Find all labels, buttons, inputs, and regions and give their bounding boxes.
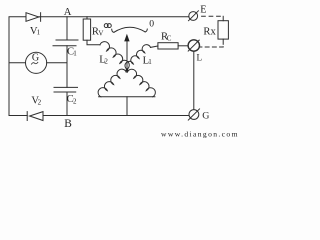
svg-text:L: L: [197, 53, 203, 63]
svg-text:G: G: [202, 111, 209, 122]
svg-text:C: C: [167, 35, 172, 43]
svg-text:2: 2: [38, 98, 42, 106]
svg-text:1: 1: [73, 50, 77, 58]
svg-text:0: 0: [149, 19, 154, 30]
svg-text:B: B: [64, 118, 72, 130]
svg-text:V: V: [98, 29, 103, 37]
svg-text:1: 1: [37, 29, 41, 37]
svg-text:A: A: [64, 7, 72, 18]
svg-text:2: 2: [73, 97, 77, 105]
svg-text:Rx: Rx: [203, 27, 216, 38]
svg-text:2: 2: [104, 58, 108, 66]
svg-text:E: E: [200, 4, 206, 15]
svg-text:G: G: [32, 53, 39, 64]
svg-text:www.diangon.com: www.diangon.com: [161, 129, 238, 138]
svg-text:1: 1: [148, 58, 152, 66]
